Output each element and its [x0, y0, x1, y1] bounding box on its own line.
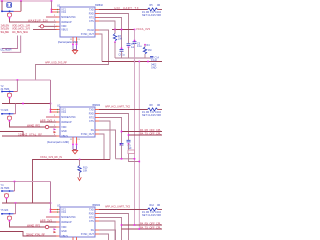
pad: [6, 198, 8, 200]
svg-text:32.768K: 32.768K: [1, 88, 10, 91]
svg-text:32KHZ_XTAL_RF: 32KHZ_XTAL_RF: [18, 132, 42, 136]
svg-text:BM832: BM832: [93, 204, 101, 207]
svg-text:Y3 32K: Y3 32K: [1, 109, 9, 112]
junction: [1, 213, 3, 215]
pin stub R2: [95, 113, 101, 115]
pad: [134, 40, 136, 42]
svg-text:HCI_UART_TX: HCI_UART_TX: [115, 6, 139, 10]
diode D3: [54, 228, 57, 230]
wire: [99, 114, 129, 141]
wire: [2, 199, 7, 203]
pad: [76, 144, 78, 146]
wire: [2, 113, 14, 115]
wire: [99, 14, 129, 44]
pin stub 1: [52, 9, 61, 11]
svg-text:1M: 1M: [148, 49, 151, 52]
wire GND return: [115, 57, 150, 59]
resistor R12: [148, 208, 158, 211]
junction: [114, 29, 116, 31]
wire XTAL mid: [2, 103, 51, 105]
pin stub R4: [95, 120, 101, 122]
wire: [2, 135, 23, 137]
junction: [1, 91, 3, 93]
wire: [36, 30, 109, 80]
wire HCI_UART_TX2: [99, 109, 148, 111]
pin stub R6: [95, 233, 101, 235]
wire: [1, 1, 3, 11]
junction: [139, 61, 141, 63]
junction: [121, 131, 123, 133]
wire: [99, 21, 115, 34]
pin stub R4: [95, 20, 101, 22]
pin stub R4: [95, 220, 101, 222]
pin stub 2: [51, 211, 61, 213]
pad: [121, 48, 123, 50]
junction: [14, 181, 16, 183]
long wire: [134, 43, 136, 225]
svg-text:GND: GND: [61, 230, 67, 233]
resistor R10: [78, 166, 81, 173]
wire: [2, 99, 10, 104]
net VDD top bus: [0, 0, 52, 2]
resistor R1: [148, 8, 158, 11]
IC U3: [60, 207, 95, 237]
junction: [9, 91, 11, 93]
junction: [134, 29, 136, 31]
wire: [14, 182, 16, 192]
svg-text:PA: PA: [91, 229, 94, 232]
svg-text:TXD: TXD: [89, 208, 94, 211]
svg-text:SCL_SDA: SCL_SDA: [1, 30, 10, 34]
svg-text:C6 1u: C6 1u: [119, 53, 126, 56]
wire PA3: [122, 224, 163, 226]
pin stub 2: [51, 111, 61, 113]
wire: [15, 203, 17, 214]
wire: [129, 154, 140, 162]
diode D4: [54, 231, 57, 233]
svg-text:0R: 0R: [157, 204, 160, 207]
pad: [72, 144, 74, 146]
buzzer LS4: [4, 194, 8, 198]
svg-text:CTS: CTS: [89, 120, 94, 123]
wire: [15, 104, 17, 114]
ground: [72, 50, 77, 54]
capacitor C5: [133, 42, 137, 44]
pin stub 4: [56, 21, 60, 23]
wire: [158, 209, 163, 211]
wire: [16, 80, 18, 92]
svg-text:0R: 0R: [157, 4, 160, 7]
svg-text:WAKEUP: WAKEUP: [61, 121, 72, 124]
ferrite FB1: [40, 25, 43, 28]
junction: [121, 158, 123, 160]
junction: [50, 209, 52, 211]
svg-text:APP_HCI_UART_TX2: APP_HCI_UART_TX2: [105, 105, 131, 109]
wire: [99, 234, 109, 240]
resistor R3: [113, 34, 116, 42]
svg-text:SYNC_OUT: SYNC_OUT: [81, 133, 95, 136]
pin stub 3: [56, 16, 60, 18]
buzzer LS3: [7, 116, 11, 120]
capacitor C6: [120, 50, 124, 52]
junction: [9, 190, 11, 192]
svg-text:WAKEUP: WAKEUP: [61, 221, 72, 224]
wire: [2, 36, 21, 53]
long wire: [138, 62, 140, 230]
svg-text:PA_RX_OFF_CPL: PA_RX_OFF_CPL: [140, 221, 162, 225]
svg-text:TXD: TXD: [89, 8, 94, 11]
wire: [76, 145, 78, 149]
svg-text:RXD: RXD: [89, 212, 94, 215]
capacitor C14: [150, 56, 153, 58]
svg-text:10K: 10K: [83, 169, 88, 172]
wire: [158, 109, 163, 111]
svg-text:10K: 10K: [118, 38, 123, 41]
svg-text:XC2: XC2: [61, 11, 66, 14]
svg-text:NET CLASS 50R: NET CLASS 50R: [142, 114, 161, 117]
junction: [1, 190, 3, 192]
svg-text:I2C_ADDR: I2C_ADDR: [1, 48, 12, 52]
pin stub R1: [95, 109, 103, 111]
wire: [14, 10, 22, 12]
pad: [9, 220, 11, 222]
wire: [99, 34, 102, 62]
svg-text:U3: U3: [57, 204, 61, 208]
ground pin 11: [72, 37, 74, 44]
wire: [2, 213, 14, 215]
svg-text:U1: U1: [57, 4, 61, 8]
pin stub 3: [56, 116, 60, 118]
pin stub R6: [95, 33, 101, 35]
svg-text:VDD: VDD: [61, 226, 66, 229]
pin tick: [56, 9, 59, 10]
pin stub 6: [56, 28, 60, 30]
wire: [73, 49, 77, 51]
pin stub R1: [95, 209, 103, 211]
wire: [39, 25, 58, 27]
wire: [114, 30, 116, 34]
wire: [46, 116, 58, 118]
svg-text:RXD: RXD: [89, 112, 94, 115]
junction: [139, 228, 141, 230]
pin stub 1: [51, 209, 61, 211]
pin stub 2: [52, 11, 61, 13]
pad: [9, 97, 11, 99]
junction: [50, 202, 52, 204]
svg-text:PA_TX_OFF_CPL: PA_TX_OFF_CPL: [140, 225, 162, 229]
svg-text:U2: U2: [57, 104, 61, 108]
wire: [72, 145, 74, 149]
junction on top bus: [20, 0, 22, 2]
svg-text:VBUS: VBUS: [61, 135, 68, 138]
svg-text:CTS: CTS: [89, 20, 94, 23]
pad: [9, 17, 11, 19]
wire VDD_RF: [33, 160, 111, 204]
wire: [14, 113, 16, 115]
svg-text:PA_RX_OFF_CPL: PA_RX_OFF_CPL: [140, 128, 162, 132]
svg-text:SYNC_OUT: SYNC_OUT: [81, 233, 95, 236]
pin stub 4: [56, 121, 60, 123]
junction: [1, 113, 3, 115]
pin stub 1: [51, 109, 61, 111]
ground pin 13: [76, 137, 78, 144]
junction: [50, 111, 52, 113]
component box: [128, 150, 135, 154]
svg-text:PA_TX_OFF_CPL: PA_TX_OFF_CPL: [140, 131, 162, 135]
wire HCI_UART_TX: [99, 9, 148, 11]
junction: [128, 134, 130, 136]
svg-text:APP_USD_3V3_RF: APP_USD_3V3_RF: [45, 60, 67, 64]
wire mid GND rail: [116, 158, 135, 160]
wire: [0, 132, 58, 137]
svg-text:TXD: TXD: [89, 108, 94, 111]
SECTION2: [0, 79, 162, 203]
svg-text:(thermal pad to GND): (thermal pad to GND): [58, 41, 78, 44]
wire: [46, 16, 58, 18]
ferrite FB3: [45, 225, 48, 228]
pin stub R6: [95, 133, 101, 135]
wire: [121, 145, 123, 159]
resistor R4: [143, 47, 146, 54]
pin stub R5: [95, 129, 101, 131]
svg-text:APP_HCI_UART_TX3: APP_HCI_UART_TX3: [105, 205, 131, 209]
svg-text:XC2: XC2: [61, 111, 66, 114]
junction: [15, 202, 17, 204]
pin stub 6: [56, 235, 60, 237]
net bus bottom: [0, 181, 51, 183]
wire feed mid: [50, 80, 52, 112]
junction: [134, 224, 136, 226]
pin tick: [56, 111, 59, 112]
ground: [72, 150, 77, 154]
wire XTAL feed: [51, 1, 53, 12]
wire: [121, 51, 123, 58]
svg-text:SYNC_OUT: SYNC_OUT: [81, 33, 95, 36]
wire: [134, 30, 136, 42]
wire: [99, 134, 104, 160]
svg-text:32KHZ_XTAL_RF: 32KHZ_XTAL_RF: [26, 233, 45, 237]
wire: [14, 213, 16, 215]
svg-text:XC2: XC2: [61, 211, 66, 214]
wire: [99, 18, 122, 49]
wire PA_RX: [122, 131, 163, 133]
svg-text:VBUS: VBUS: [61, 235, 68, 238]
svg-text:GND: GND: [61, 130, 67, 133]
wire: [2, 36, 18, 49]
pin stub 3: [56, 216, 60, 218]
pad: [9, 120, 11, 122]
pin stub 6: [56, 135, 60, 137]
SECTION1: [0, 0, 162, 229]
resistor R8: [148, 108, 158, 111]
wire: [158, 9, 163, 11]
ground pin 11: [72, 237, 74, 240]
net VCCA rail: [112, 29, 135, 31]
IC U2: [60, 107, 95, 137]
pad: [114, 41, 116, 43]
pin stub 5: [56, 126, 60, 128]
pin stub 5: [56, 226, 60, 228]
pin stub R3: [95, 217, 101, 219]
buzzer LS5: [7, 216, 11, 220]
wire: [2, 91, 14, 93]
wire: [99, 130, 116, 159]
junction: [51, 11, 53, 13]
svg-text:R12: R12: [150, 204, 155, 207]
wire: [0, 232, 58, 237]
svg-text:XXXA_3V3_RF_IN: XXXA_3V3_RF_IN: [40, 155, 62, 159]
svg-text:VCCA_3V3: VCCA_3V3: [136, 27, 151, 31]
svg-text:WAKE_RF2: WAKE_RF2: [27, 123, 41, 127]
junction: [51, 0, 53, 2]
wire: [46, 216, 58, 218]
pin stub R1: [95, 9, 103, 11]
ground pin 11: [72, 137, 74, 144]
wire: [128, 47, 130, 58]
wire: [99, 230, 116, 240]
wire PA_TX: [129, 134, 163, 136]
net bus mid: [0, 79, 51, 81]
wire: [114, 42, 116, 58]
wire: [76, 45, 78, 49]
wire: [99, 118, 122, 144]
svg-text:VDD: VDD: [61, 126, 66, 129]
svg-text:32.768K: 32.768K: [1, 187, 10, 190]
pin stub R3: [95, 17, 101, 19]
pin stub R2: [95, 213, 101, 215]
wire: [79, 160, 81, 166]
diode D1: [54, 128, 57, 130]
junction: [51, 9, 53, 11]
junction: [134, 61, 136, 63]
wire: [99, 221, 115, 240]
svg-text:P0.02: P0.02: [88, 29, 95, 32]
svg-text:I2C_BUS_SDA: I2C_BUS_SDA: [12, 30, 28, 34]
wire: [20, 1, 22, 11]
capacitor C10: [120, 143, 124, 145]
ferrite FB2: [45, 125, 48, 128]
pad: [128, 46, 130, 48]
svg-text:(thermal pad to GND): (thermal pad to GND): [47, 141, 69, 144]
junction: [9, 213, 11, 215]
svg-text:NET CLASS 50R: NET CLASS 50R: [142, 214, 161, 217]
pin stub R5: [95, 29, 101, 31]
wire: [72, 45, 74, 49]
wire: [10, 19, 58, 23]
wire: [99, 218, 122, 240]
junction: [9, 113, 11, 115]
wire: [144, 45, 146, 48]
svg-text:MODE/SYNC: MODE/SYNC: [61, 216, 76, 219]
junction: [22, 103, 24, 105]
pin tick: [56, 209, 59, 210]
buzzer LS1: [7, 13, 11, 17]
wire: [2, 190, 14, 192]
svg-text:PA: PA: [91, 129, 94, 132]
wire: [2, 10, 14, 12]
svg-text:WAKEUP_32K: WAKEUP_32K: [28, 19, 48, 23]
diode D2: [54, 131, 57, 133]
junction: [1, 11, 3, 13]
wire: [10, 222, 58, 227]
svg-text:WAKE_RF3: WAKE_RF3: [27, 223, 41, 227]
pin stub 4: [56, 221, 60, 223]
ground pin 13: [76, 237, 78, 240]
junction: [79, 159, 81, 161]
pin stub R2: [95, 13, 101, 15]
pin tick: [56, 211, 59, 212]
wire SYNC3: [122, 228, 163, 230]
pin stub R5: [95, 229, 101, 231]
junction: [139, 161, 141, 163]
svg-text:MODE/SYNC: MODE/SYNC: [61, 16, 76, 19]
pad: [72, 44, 74, 46]
wire feed bottom: [50, 182, 52, 213]
wire: [33, 28, 58, 30]
pad: [144, 44, 146, 46]
svg-text:BM832: BM832: [93, 104, 101, 107]
wire: [14, 91, 18, 93]
buzzer LS2: [7, 93, 11, 97]
pin tick: [56, 109, 59, 110]
junction: [134, 158, 136, 160]
svg-text:GND: GND: [151, 66, 157, 69]
wire: [10, 122, 58, 127]
crystal Y1: [7, 3, 12, 8]
ground arrow: [78, 173, 82, 181]
pin stub 5: [56, 25, 60, 27]
svg-text:MODE/SYNC: MODE/SYNC: [61, 116, 76, 119]
svg-text:NET CLASS 50R: NET CLASS 50R: [142, 14, 161, 17]
pad: [128, 143, 130, 145]
pad: [120, 143, 122, 145]
junction: [121, 224, 123, 226]
svg-text:0R: 0R: [157, 104, 160, 107]
junction: [147, 61, 149, 63]
wire: [144, 54, 146, 58]
svg-text:Y5 32K: Y5 32K: [1, 209, 9, 212]
IC U1: [60, 7, 95, 37]
SECTION3: [0, 181, 162, 240]
svg-text:0.1u: 0.1u: [137, 45, 142, 48]
svg-text:BM832: BM832: [95, 4, 103, 7]
svg-text:CTS: CTS: [89, 220, 94, 223]
wire: [128, 144, 130, 150]
junction: [50, 109, 52, 111]
junction on top bus: [1, 0, 3, 2]
junction: [121, 29, 123, 31]
capacitor C9: [127, 140, 131, 142]
svg-text:VBUS: VBUS: [61, 28, 68, 31]
pin stub R3: [95, 117, 101, 119]
pin tick: [56, 11, 59, 12]
capacitor C7: [127, 44, 131, 46]
junction: [17, 79, 19, 81]
wire: [99, 214, 129, 240]
wire XTAL bottom: [2, 202, 51, 204]
wire: [40, 221, 58, 223]
junction: [50, 103, 52, 105]
junction: [50, 211, 52, 213]
wire: [73, 149, 77, 151]
wire HCI_UART_TX3: [99, 209, 148, 211]
ground pin 13: [76, 37, 78, 44]
wire GND rail: [102, 61, 162, 63]
pad: [76, 44, 78, 46]
junction: [9, 10, 11, 12]
wire: [40, 121, 58, 123]
svg-text:1uF: 1uF: [131, 46, 136, 49]
